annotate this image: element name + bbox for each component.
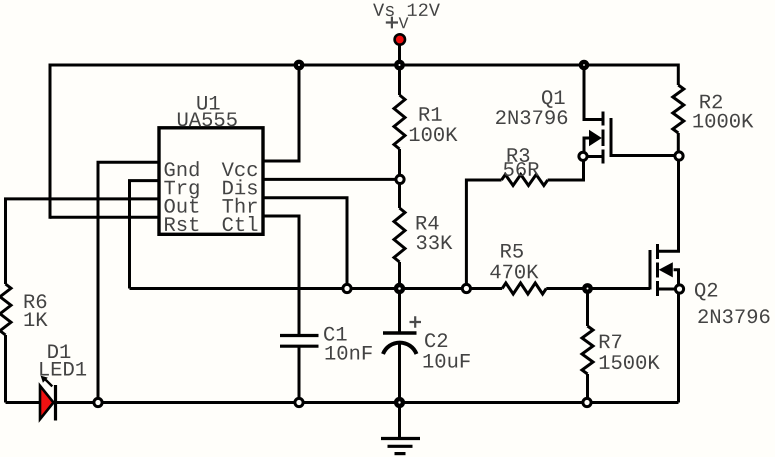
label R3 <box>508 148 530 162</box>
diode D1 triangle <box>40 386 54 419</box>
label C2 <box>425 333 447 347</box>
transistor Q2 substrate lead <box>674 270 679 285</box>
wire C2 top stem <box>398 289 401 334</box>
node Thr on mid rail <box>343 284 351 292</box>
wire Q2 drain <box>659 161 679 252</box>
wire R7 top lead <box>586 289 589 327</box>
capacitor C1 <box>280 336 319 403</box>
node R3-R5 on mid rail <box>462 284 470 292</box>
label R7 <box>600 335 621 349</box>
wire R3 node drop <box>466 180 501 289</box>
capacitor C2 <box>383 316 421 354</box>
label UA555 <box>178 113 237 127</box>
wire Thr pin to mid rail <box>263 198 347 289</box>
wire bottom rail <box>6 401 679 404</box>
resistor R2 zigzag <box>673 85 684 133</box>
node Q1 drain junction <box>581 62 587 68</box>
label C1 <box>324 327 347 341</box>
pin Ctl <box>223 216 258 231</box>
wire supply stem and R1 lead <box>398 45 401 95</box>
diode D1 light arrow <box>46 380 53 387</box>
wire R3 to Q1 source <box>548 162 584 181</box>
label Q2 <box>695 283 717 301</box>
resistor R3 <box>502 175 548 186</box>
diode D1 cathode bar <box>54 385 57 421</box>
label +V <box>399 17 409 28</box>
node Dis-R1-R4 <box>396 175 404 183</box>
transistor Q1 gate plate <box>611 118 675 156</box>
transistor Q1 arrow <box>589 130 602 146</box>
wire left riser <box>49 65 52 219</box>
transistor Q2 arrow <box>659 262 673 277</box>
wire R4 to mid rail <box>398 262 401 289</box>
pin Out <box>165 199 199 213</box>
pin Vcc <box>222 163 257 177</box>
wire Ctl pin to C1 <box>263 216 299 336</box>
wire mid rail left <box>130 287 503 290</box>
node Q2 source <box>675 285 683 293</box>
wire R7 bottom lead <box>586 374 589 403</box>
LED D1 <box>40 376 56 421</box>
wire Q2 source to bottom rail <box>677 294 680 403</box>
ground <box>381 439 420 454</box>
transistor Q1 substrate lead <box>584 138 589 152</box>
wire Vcc pin to top rail <box>263 65 299 161</box>
label R2 <box>700 95 722 109</box>
resistor R1 <box>394 95 405 149</box>
node Q1 source <box>579 152 587 160</box>
wire C2 bottom stem <box>398 343 401 403</box>
wire R2 top lead <box>677 64 680 86</box>
node R5-R7-gate junction <box>584 285 590 291</box>
supply +V terminal <box>395 34 405 44</box>
label D1 <box>48 345 70 359</box>
node supply junction <box>396 62 402 68</box>
label Vs 12V <box>373 4 440 17</box>
resistor R4 <box>394 208 405 262</box>
open node circles <box>94 152 684 407</box>
pin Thr <box>222 198 256 213</box>
node R2-gate-drain <box>675 152 683 160</box>
wire R6 to bottom rail <box>4 335 7 403</box>
capacitor C2 plus sign <box>410 316 422 328</box>
node R7 bottom <box>583 398 591 406</box>
label R4 <box>417 216 439 230</box>
node C2 top junction <box>396 285 403 292</box>
wire Dis pin to node <box>263 178 400 181</box>
wire R2 to node <box>677 133 680 152</box>
label Q1 <box>542 90 565 108</box>
wire Q1 source line <box>588 155 604 158</box>
label R6 <box>25 294 47 308</box>
node Gnd wire bottom <box>94 398 102 406</box>
wire Trg pin to mid rail <box>130 181 160 289</box>
wire Q2 source line <box>659 288 675 291</box>
resistor R5 <box>502 283 546 294</box>
wire Rst pin to left riser <box>50 216 159 219</box>
pin Rst <box>165 217 198 231</box>
pin Dis <box>223 179 257 194</box>
wire mid rail right to Q2 gate <box>546 287 650 290</box>
wire C1 bottom lead <box>298 346 301 402</box>
wire Out pin to R6 <box>6 199 160 284</box>
resistor R6 <box>0 284 11 335</box>
transistor Q2 channel <box>656 244 659 296</box>
label R5 <box>501 244 523 258</box>
resistor R7 <box>582 326 593 374</box>
pin Trg <box>164 181 198 199</box>
label U1 <box>197 96 219 110</box>
op-amp U1 box <box>159 128 263 235</box>
pin Gnd <box>165 161 199 176</box>
node C1 bottom <box>295 398 303 406</box>
wire top rail <box>49 64 679 67</box>
label +V plus sign <box>386 17 398 29</box>
node C2 bottom junction <box>396 399 403 406</box>
transistor Q2 gate plate <box>649 250 652 290</box>
wire ground stem <box>398 403 401 438</box>
wire Q1 drain <box>584 65 602 120</box>
wire Gnd pin to bottom rail <box>98 162 159 402</box>
label R1 <box>420 107 442 121</box>
node Vcc-rail junction <box>296 62 302 68</box>
transistor Q1 channel <box>602 112 605 164</box>
wire R1 to R4 <box>398 149 401 208</box>
